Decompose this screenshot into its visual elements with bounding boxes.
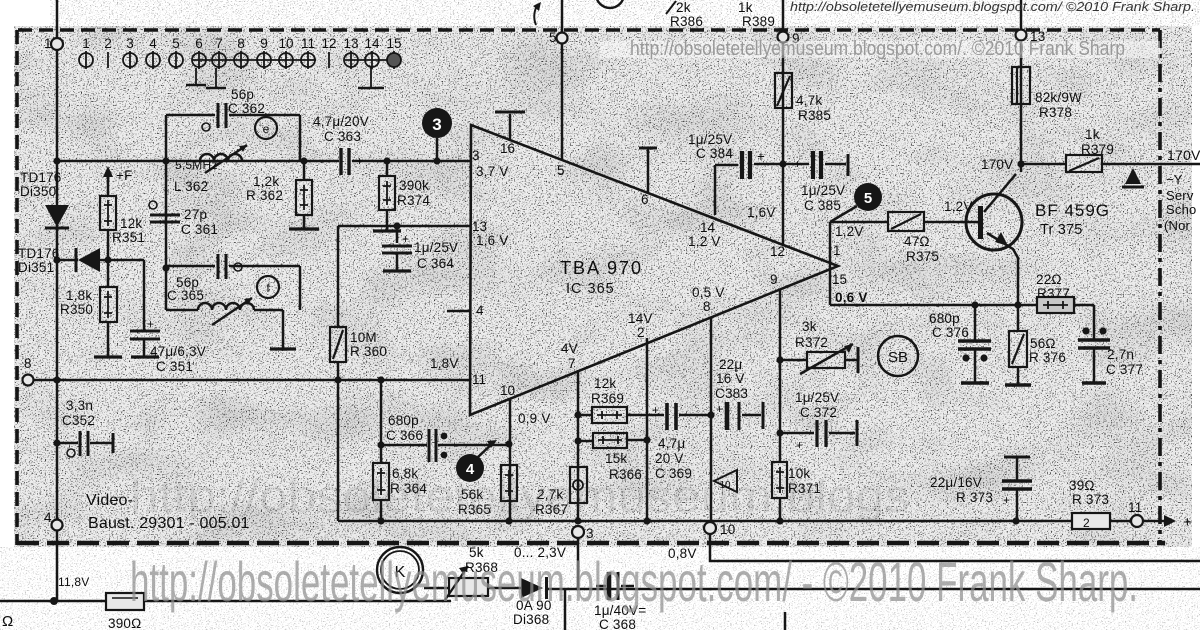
svg-text:12: 12: [321, 36, 336, 51]
svg-text:+F: +F: [116, 168, 133, 183]
svg-text:C 384: C 384: [696, 146, 733, 161]
svg-text:Ω: Ω: [2, 613, 13, 630]
svg-text:10: 10: [500, 383, 515, 398]
svg-text:+: +: [652, 403, 659, 417]
svg-text:BF 459G: BF 459G: [1035, 201, 1110, 220]
svg-text:(Nor: (Nor: [1164, 218, 1191, 233]
svg-text:1,2 V: 1,2 V: [688, 234, 721, 249]
svg-text:C 385: C 385: [804, 198, 841, 213]
svg-text:SB: SB: [888, 349, 908, 366]
svg-text:+: +: [757, 149, 765, 164]
svg-text:R389: R389: [742, 14, 775, 29]
svg-text:2k: 2k: [676, 0, 691, 15]
svg-text:2,7n: 2,7n: [1107, 347, 1134, 362]
svg-text:http://obsoletetellyemuseum.bl: http://obsoletetellyemuseum.blogspot.com…: [790, 0, 1195, 14]
svg-text:20 V: 20 V: [655, 451, 684, 466]
svg-text:5: 5: [172, 36, 180, 51]
svg-text:1: 1: [833, 243, 841, 258]
svg-text:3,7 V: 3,7 V: [476, 164, 509, 179]
svg-text:+: +: [1003, 493, 1010, 507]
svg-text:1,8k: 1,8k: [66, 288, 92, 303]
svg-text:12: 12: [770, 244, 785, 259]
svg-text:0,9 V: 0,9 V: [518, 411, 551, 426]
svg-text:4,7μ/20V: 4,7μ/20V: [313, 114, 369, 129]
svg-text:390Ω: 390Ω: [108, 616, 141, 630]
svg-text:1μ/25V: 1μ/25V: [801, 183, 845, 198]
svg-text:2: 2: [637, 325, 645, 340]
svg-text:C 361: C 361: [181, 222, 218, 237]
svg-text:R375: R375: [906, 249, 939, 264]
svg-text:3k: 3k: [802, 319, 817, 334]
svg-text:3: 3: [432, 115, 441, 134]
svg-text:1,2V: 1,2V: [944, 199, 973, 214]
svg-text:82k/9W: 82k/9W: [1035, 90, 1082, 105]
svg-text:1,2k: 1,2k: [253, 174, 279, 189]
svg-text:5: 5: [864, 190, 872, 207]
svg-text:C352: C352: [62, 413, 95, 428]
svg-text:4,7k: 4,7k: [796, 93, 822, 108]
svg-text:3,3n: 3,3n: [66, 398, 93, 413]
svg-text:C 351: C 351: [156, 359, 193, 374]
svg-text:R379: R379: [1081, 142, 1114, 157]
svg-text:R385: R385: [798, 108, 831, 123]
svg-text:4: 4: [149, 36, 157, 51]
svg-text:15: 15: [832, 272, 847, 287]
svg-text:16 V: 16 V: [716, 371, 745, 386]
svg-text:e: e: [263, 122, 270, 136]
svg-text:TD176: TD176: [18, 246, 60, 261]
svg-text:R386: R386: [670, 14, 703, 29]
svg-text:3: 3: [586, 526, 594, 541]
svg-text:27p: 27p: [184, 207, 207, 222]
svg-text:2: 2: [1083, 516, 1090, 530]
svg-text:1k: 1k: [738, 0, 753, 15]
svg-text:6: 6: [641, 192, 649, 207]
svg-text:C 376: C 376: [932, 325, 969, 340]
svg-text:3: 3: [472, 148, 480, 163]
svg-text:C 377: C 377: [1106, 362, 1143, 377]
svg-text:R350: R350: [60, 302, 93, 317]
svg-text:16: 16: [500, 141, 515, 156]
svg-text:Di368: Di368: [513, 612, 549, 627]
svg-text:14: 14: [364, 36, 380, 51]
svg-text:+: +: [796, 438, 803, 452]
svg-text:Di350: Di350: [20, 184, 56, 199]
svg-text:5: 5: [549, 30, 557, 45]
svg-text:170V: 170V: [981, 157, 1013, 172]
svg-text:1μ/25V: 1μ/25V: [688, 132, 732, 147]
svg-text:1μ/25V: 1μ/25V: [414, 240, 458, 255]
svg-text:0,5 V: 0,5 V: [692, 285, 725, 300]
svg-text:TBA 970: TBA 970: [560, 258, 643, 278]
svg-text:L 362: L 362: [174, 179, 208, 194]
svg-text:8: 8: [24, 356, 32, 371]
svg-text:C 364: C 364: [417, 256, 454, 271]
svg-text:7: 7: [215, 36, 223, 51]
svg-text:3: 3: [126, 36, 134, 51]
svg-text:22μ: 22μ: [719, 357, 742, 372]
svg-text:15: 15: [386, 36, 401, 51]
svg-text:56Ω: 56Ω: [1030, 336, 1056, 351]
svg-text:39Ω: 39Ω: [1069, 478, 1095, 493]
svg-text:C 372: C 372: [800, 405, 837, 420]
svg-text:+: +: [147, 317, 154, 331]
svg-text:8: 8: [703, 299, 711, 314]
svg-text:1,6V: 1,6V: [747, 205, 776, 220]
svg-text:12k: 12k: [594, 376, 616, 391]
svg-text:4V: 4V: [561, 341, 578, 356]
svg-text:R 376: R 376: [1029, 350, 1066, 365]
svg-text:+: +: [356, 154, 363, 168]
svg-text:C 362: C 362: [228, 101, 265, 116]
svg-text:47Ω: 47Ω: [904, 234, 930, 249]
svg-text:1: 1: [82, 36, 90, 51]
svg-text:C 368: C 368: [599, 617, 636, 630]
svg-text:http://obsoletetellyemuseum.bl: http://obsoletetellyemuseum.blogspot.com…: [130, 550, 1138, 613]
svg-text:C 366: C 366: [386, 428, 423, 443]
svg-text:56p: 56p: [231, 87, 254, 102]
svg-text:Serv: Serv: [1166, 188, 1194, 203]
svg-text:2: 2: [104, 36, 112, 51]
svg-text:IC 365: IC 365: [566, 281, 615, 297]
svg-text:R374: R374: [397, 193, 430, 208]
svg-text:11: 11: [472, 372, 486, 387]
svg-text:5: 5: [557, 163, 565, 178]
svg-text:Scho: Scho: [1166, 202, 1196, 217]
svg-text:R372: R372: [795, 335, 828, 350]
svg-text:R369: R369: [591, 391, 624, 406]
svg-text:−Y: −Y: [1166, 172, 1183, 187]
svg-text:C 363: C 363: [324, 129, 361, 144]
svg-text:1μ/25V: 1μ/25V: [795, 390, 839, 405]
svg-text:http://obsoletetellyemuseum.bl: http://obsoletetellyemuseum.blogspot.com…: [630, 38, 1125, 60]
svg-text:47μ/6,3V: 47μ/6,3V: [150, 344, 206, 359]
svg-text:C383: C383: [715, 386, 748, 401]
svg-text:680p: 680p: [929, 311, 960, 326]
svg-text:R 373: R 373: [1072, 492, 1109, 507]
svg-text:R351: R351: [112, 230, 145, 245]
svg-text:10: 10: [720, 522, 735, 537]
svg-text:11: 11: [301, 36, 315, 51]
svg-text:14: 14: [700, 220, 716, 235]
svg-text:22μ/16V: 22μ/16V: [930, 475, 982, 490]
svg-text:8: 8: [237, 36, 245, 51]
svg-text:9: 9: [260, 36, 268, 51]
svg-text:+: +: [794, 157, 801, 171]
svg-text:680p: 680p: [388, 413, 419, 428]
svg-text:0,6 V: 0,6 V: [835, 290, 868, 305]
svg-text:R 373: R 373: [956, 490, 993, 505]
svg-text:6: 6: [195, 36, 203, 51]
svg-text:170V: 170V: [1167, 147, 1200, 163]
svg-text:http://obsoletetellyemuseum.bl: http://obsoletetellyemuseum.blogs: [130, 470, 910, 522]
svg-text:13: 13: [472, 219, 487, 234]
svg-text:1: 1: [44, 36, 52, 51]
svg-text:Di351: Di351: [18, 260, 54, 275]
svg-text:Video-: Video-: [86, 492, 133, 509]
svg-text:4: 4: [44, 510, 52, 525]
svg-text:11: 11: [1128, 500, 1142, 515]
svg-text:+: +: [402, 232, 409, 246]
svg-text:R377: R377: [1037, 286, 1070, 301]
svg-text:7: 7: [568, 356, 576, 371]
svg-text:5,5MHz: 5,5MHz: [175, 158, 218, 172]
svg-text:+: +: [716, 402, 723, 416]
svg-text:11,8V: 11,8V: [58, 575, 89, 589]
svg-text:4,7μ: 4,7μ: [658, 436, 685, 451]
svg-text:390k: 390k: [399, 178, 429, 193]
svg-text:Tr 375: Tr 375: [1040, 222, 1083, 238]
svg-text:12k: 12k: [120, 216, 142, 231]
svg-text:C 365: C 365: [167, 288, 204, 303]
svg-text:14V: 14V: [628, 311, 653, 326]
svg-text:10: 10: [278, 36, 293, 51]
svg-text:R 360: R 360: [350, 344, 387, 359]
svg-text:10M: 10M: [350, 330, 377, 345]
svg-text:22Ω: 22Ω: [1036, 272, 1062, 287]
svg-text:1,6 V: 1,6 V: [476, 233, 509, 248]
svg-text:1,8V: 1,8V: [430, 356, 459, 371]
svg-text:+: +: [1183, 514, 1192, 531]
svg-text:9: 9: [770, 272, 778, 287]
svg-text:R378: R378: [1039, 105, 1072, 120]
svg-text:TD176: TD176: [20, 170, 62, 185]
svg-text:R 362: R 362: [246, 188, 283, 203]
svg-text:1k: 1k: [1085, 127, 1100, 142]
svg-text:13: 13: [343, 36, 358, 51]
svg-text:4: 4: [476, 303, 484, 318]
svg-text:15k: 15k: [605, 451, 627, 466]
svg-text:1,2V: 1,2V: [835, 224, 864, 239]
